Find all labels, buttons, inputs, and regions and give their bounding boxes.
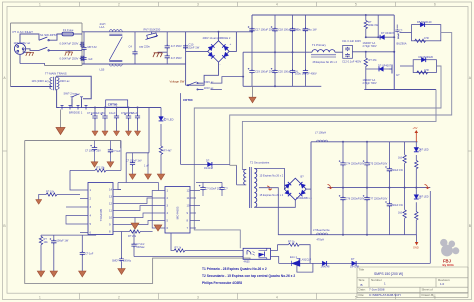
wire doubler throw B [211, 88, 222, 90]
clamp diode upper wire [366, 36, 394, 38]
filter cap column 1 [91, 108, 98, 136]
clamp diode lower [379, 67, 383, 72]
wire rail corner to HV rail [236, 15, 252, 32]
svg-text:P? U AC INLET: P? U AC INLET [13, 30, 34, 34]
svg-text:470uH: 470uH [317, 237, 325, 241]
choke L1B [109, 64, 122, 66]
series caps box C11 C12 [343, 45, 353, 58]
svg-text:820uF 1W: 820uF 1W [392, 204, 404, 207]
MOSFET T1 [389, 52, 394, 90]
opto LED [247, 251, 255, 256]
wire mesh 2 [121, 198, 157, 204]
svg-text:5: 5 [355, 3, 357, 7]
T2 primary lower tap wire [237, 165, 247, 185]
svg-text:T2 Secundaries: T2 Secundaries [250, 161, 270, 165]
svg-text:6: 6 [434, 3, 436, 7]
bridge 3 diamond [284, 178, 306, 200]
filter cap column 5 [134, 108, 140, 136]
wire mesh 1 [121, 191, 157, 197]
R left of ic top [95, 169, 106, 172]
red hook mid right [425, 185, 430, 189]
date/file values [369, 288, 401, 297]
main transformer primary coil [50, 77, 52, 89]
bulk cap C top4 [303, 15, 308, 52]
svg-text:7-Jun-2008: 7-Jun-2008 [369, 288, 385, 292]
svg-text:3: 3 [197, 3, 199, 7]
ground column3 [79, 271, 86, 277]
chassis ground 2 [65, 52, 73, 56]
gate drive diode wire [181, 163, 230, 165]
snubber2 diode [421, 57, 425, 62]
svg-text:10: 10 [109, 216, 113, 220]
inductor top rail [317, 140, 328, 142]
Y cap lower [165, 55, 170, 65]
svg-text:CRT80: CRT80 [183, 98, 193, 102]
filter cap column 3 [113, 108, 119, 136]
capacitor C3 on box edge [80, 56, 85, 61]
snubber2 resistor [417, 71, 428, 74]
out top rail [311, 141, 418, 143]
X cap column x84 lower [81, 56, 86, 64]
svg-text:Date:: Date: [359, 288, 366, 292]
TL431 [292, 259, 301, 267]
svg-text:2: 2 [118, 3, 120, 7]
svg-text:R? 10k: R? 10k [97, 166, 106, 170]
out res column4 [403, 142, 406, 235]
vcc cap1 ground [91, 162, 98, 167]
bulk cap C19 [248, 52, 255, 86]
svg-text:MUR420B x 4: MUR420B x 4 [296, 196, 312, 200]
optocoupler U box [243, 248, 270, 259]
wire secondary top to trap switch [57, 76, 92, 99]
svg-text:TDA4605: TDA4605 [99, 208, 103, 221]
red hook T2 [267, 186, 272, 190]
T2 core [249, 167, 251, 208]
R 22k row [121, 230, 153, 233]
left vertical doubler tap [242, 52, 244, 86]
svg-text:BRIDGE 2: BRIDGE 2 [218, 36, 231, 40]
ground arrow below bridge1 [60, 110, 62, 128]
feedback wire up right [429, 191, 431, 263]
wire R fb row [277, 243, 310, 263]
svg-text:SMD? 1n 100Vdc: SMD? 1n 100Vdc [112, 259, 132, 262]
switch SW2 trap contacts [71, 94, 84, 99]
chassis ground Y caps [153, 53, 162, 57]
ground arrow mesh 2 stub [157, 224, 159, 226]
fb diode 2 [352, 261, 356, 266]
svg-text:C?6 2200uF/16V: C?6 2200uF/16V [346, 198, 365, 201]
junction dots rail [94, 107, 139, 109]
wire switch A to fuse [49, 34, 62, 40]
zone letters [3, 76, 471, 228]
svg-text:cap 220n: cap 220n [139, 44, 150, 48]
bottom rail [82, 63, 186, 65]
gate drive diode [208, 162, 212, 167]
svg-text:C11 0.1uF 400V: C11 0.1uF 400V [342, 39, 361, 43]
svg-text:R? 1k: R? 1k [175, 245, 182, 249]
out res column3 top [385, 142, 392, 235]
chassis ground inlet [26, 52, 34, 56]
svg-text:12: 12 [187, 189, 191, 193]
opto transistor [259, 248, 267, 259]
wire doubler throw A [211, 77, 244, 84]
svg-text:0.0047uF 250V: 0.0047uF 250V [60, 42, 79, 46]
out left column [310, 142, 312, 235]
svg-text:400V 1A amp: 400V 1A amp [203, 36, 219, 40]
hot side enclosure wire top [25, 141, 121, 149]
svg-text:D5 MUR120: D5 MUR120 [417, 20, 432, 24]
title block texts [359, 267, 450, 296]
svg-text:BRIDGE 1: BRIDGE 1 [69, 111, 83, 115]
svg-text:1: 1 [39, 295, 41, 299]
LED D indicator [159, 117, 166, 121]
wire box2 to feedback P1 [194, 66, 441, 248]
ground arrow mesh 1 stub [134, 218, 136, 224]
ground column2 [50, 271, 57, 277]
svg-text:3: 3 [197, 295, 199, 299]
secondary top wire to bridge [254, 168, 284, 189]
svg-text:F1 Fuse: F1 Fuse [63, 28, 74, 32]
svg-text:D? LED: D? LED [165, 118, 174, 122]
wire caps to drain node [352, 51, 394, 53]
choke L1A [109, 30, 122, 32]
svg-text:-: - [220, 63, 221, 67]
wire ic top bus [118, 182, 159, 184]
zone tick right [468, 150, 472, 152]
svg-text:B: B [361, 283, 363, 287]
vcc cap2 column [108, 141, 113, 162]
svg-text:C?7 2200uF/16V: C?7 2200uF/16V [369, 198, 388, 201]
svg-text:4.7uF 400V: 4.7uF 400V [303, 71, 317, 75]
wire ic1 pin4 left [66, 216, 80, 225]
svg-text:.1uF: .1uF [88, 57, 94, 61]
Y cap upper [165, 32, 170, 56]
doubler switch blade [187, 82, 203, 90]
svg-text:11: 11 [187, 196, 190, 200]
bulk cap C18 [271, 15, 278, 52]
feedback wire main [279, 262, 431, 264]
svg-text:0.1uF: 0.1uF [131, 111, 138, 115]
svg-text:C? 100nF 1kV: C? 100nF 1kV [126, 160, 142, 163]
svg-text:GND: GND [413, 246, 419, 250]
svg-text:D? UF4007: D? UF4007 [381, 31, 395, 35]
wire mesh 6 [152, 197, 157, 229]
CRT80 pin stubs [111, 106, 119, 108]
svg-text:MC44603: MC44603 [176, 206, 180, 219]
zone ticks top [80, 2, 396, 7]
svg-text:Number: Number [371, 278, 382, 282]
vcc cap1 column [90, 141, 97, 162]
IC2 left pin stubs [157, 191, 165, 229]
wire secondary bottom down [57, 89, 59, 107]
svg-text:D?: D? [351, 257, 355, 261]
IC1 left pin stubs [80, 190, 88, 233]
svg-text:14: 14 [109, 188, 113, 192]
svg-text:C:\SMPS-AT-DAB.SCH: C:\SMPS-AT-DAB.SCH [369, 293, 401, 297]
svg-text:0.1uF: 0.1uF [109, 111, 116, 115]
svg-text:47R: 47R [424, 36, 429, 40]
svg-text:D? UF4007: D? UF4007 [378, 63, 392, 67]
svg-text:R? 47k: R? 47k [369, 58, 378, 62]
switch S1 pole B [39, 47, 49, 51]
title block frame [357, 267, 468, 298]
choke L1B core [109, 60, 122, 61]
svg-text:C?4 2200uF/16V: C?4 2200uF/16V [346, 163, 365, 166]
svg-text:1: 1 [39, 3, 41, 7]
bulk cap C17 [248, 15, 255, 52]
svg-text:MKT-X2: MKT-X2 [88, 45, 98, 49]
wire filter to bridge2 left [186, 50, 208, 52]
primary ground arrow [252, 86, 254, 97]
capacitor C2 on box edge [80, 42, 85, 47]
svg-text:T1 Primario - 28 Espiras Quadr: T1 Primario - 28 Espiras Quadru No.26 x … [202, 267, 267, 271]
mid drop ground [145, 174, 152, 179]
fuse F1 [62, 32, 74, 36]
filter cap column 2 [101, 108, 108, 136]
secondary ground port stub [416, 235, 418, 242]
right filter vertical [185, 32, 187, 85]
svg-text:C? 1nF: C? 1nF [85, 251, 94, 255]
svg-text:D6 MUR120: D6 MUR120 [419, 55, 434, 59]
svg-text:13: 13 [109, 195, 113, 199]
wire R pin2 [57, 194, 80, 196]
IC2 right pin numbers [187, 189, 191, 231]
wire inlet to switch top [20, 34, 39, 43]
svg-text:4: 4 [276, 295, 278, 299]
svg-text:1N4148: 1N4148 [321, 265, 331, 269]
C4 column [132, 32, 137, 64]
wire caps down [203, 191, 222, 196]
wire mesh 4 [121, 213, 157, 218]
bridge 3 diode top-right [299, 182, 306, 189]
IC1 right pin stubs [113, 190, 121, 232]
zone numbers top [39, 3, 436, 7]
wire R pin2 left down [39, 195, 46, 200]
R bottom left column [39, 235, 42, 271]
hot side enclosure wire left-bottom [25, 141, 250, 284]
snubber1 resistor [415, 39, 426, 42]
snubber box 2 [413, 60, 436, 73]
svg-text:C?5 2200uF/16V: C?5 2200uF/16V [369, 163, 388, 166]
wire primary left [51, 86, 54, 88]
cap bottom column3 [80, 235, 85, 271]
wire R to ground [160, 154, 162, 174]
cap C11 [345, 47, 350, 51]
wire aux to box1 [400, 32, 412, 34]
IC2 body [165, 187, 190, 234]
svg-text:630Vac: 630Vac [137, 246, 146, 249]
svg-text:4N35: 4N35 [244, 259, 251, 263]
clamp diode lower wire [366, 68, 389, 70]
sub rail to ic bus [125, 153, 127, 183]
bridge 3 diode bottom-left [285, 190, 292, 197]
aux winding element [395, 25, 399, 39]
ground arrow mesh 1 [131, 223, 139, 229]
clamp R lower [364, 58, 367, 66]
svg-text:L? 100uH: L? 100uH [315, 131, 326, 135]
svg-text:BUZ90A: BUZ90A [397, 41, 407, 45]
out cap column1 top [339, 142, 346, 235]
filter cap column 4 [124, 108, 131, 136]
size/number/revision values [361, 282, 445, 287]
snubber1 diode [420, 22, 424, 27]
wire trap to bridge1 right [81, 99, 83, 108]
wire to opto lower pin [134, 256, 243, 258]
X cap column x84 upper [81, 32, 86, 57]
T2 secondary winding upper [254, 168, 257, 187]
svg-text:1 uF: 1 uF [144, 164, 149, 167]
bridge 2 diode bottom-right [222, 52, 229, 59]
svg-text:L? Bead ferrite: L? Bead ferrite [313, 228, 330, 232]
ecap bottom column2 [50, 235, 57, 271]
wire opto top right [271, 245, 278, 251]
choke coupling diagonal [109, 37, 122, 61]
svg-text:SMPS 150 [200 W]: SMPS 150 [200 W] [374, 272, 403, 276]
ecap right of ic2 [199, 185, 206, 191]
+5V power port [415, 130, 419, 142]
svg-text:230V ac: 230V ac [60, 79, 71, 83]
svg-text:10: 10 [187, 204, 191, 208]
connector CRT80 [106, 100, 128, 107]
bulk cap C low3 [290, 52, 295, 86]
bridge 2 diode top-right [222, 44, 229, 51]
cap C12 [345, 53, 350, 57]
junction dots grid [342, 141, 417, 236]
svg-text:4n7 250V: 4n7 250V [171, 56, 182, 60]
mid plain drop [147, 153, 149, 174]
wire rail to coil [309, 51, 312, 53]
wire ic2 top bus [196, 182, 222, 187]
svg-text:Philips Ferroxcube 4C6E8: Philips Ferroxcube 4C6E8 [202, 281, 242, 285]
svg-text:4mH: 4mH [100, 22, 106, 26]
svg-text:R? 1k: R? 1k [288, 240, 295, 244]
svg-text:Erro 1: Erro 1 [290, 255, 298, 259]
vcc drop wire [120, 141, 122, 171]
svg-text:400k 1W: 400k 1W [368, 23, 379, 27]
ground smd cap [118, 269, 125, 275]
wire coil to series caps [335, 51, 343, 53]
svg-text:T? MAIN TRANS: T? MAIN TRANS [45, 72, 67, 76]
svg-text:L1B: L1B [100, 68, 105, 72]
svg-text:T2 Secundario - 15 Espiras con: T2 Secundario - 15 Espiras con tap centr… [202, 274, 295, 278]
svg-text:4ku 1W: 4ku 1W [308, 28, 317, 32]
svg-text:4: 4 [276, 3, 278, 7]
vdd sub rail [126, 152, 149, 154]
wire mesh 3 [121, 206, 157, 211]
svg-text:1N4148: 1N4148 [350, 265, 360, 269]
main transformer secondary coil [57, 77, 59, 89]
wire R to ic [70, 169, 121, 171]
bridge 2 diamond [208, 41, 230, 62]
svg-text:28 Espiras No 26 x 2: 28 Espiras No 26 x 2 [313, 60, 338, 64]
svg-text:D?: D? [206, 159, 210, 163]
out led column bottom [414, 188, 421, 235]
svg-text:+5V: +5V [413, 126, 418, 130]
svg-text:Voltage SW: Voltage SW [170, 80, 185, 84]
bridge3 right wire [306, 188, 311, 190]
wire mains box bottom [45, 65, 82, 67]
IC1 right pin numbers [109, 188, 113, 234]
wire mosfet to box2 [400, 65, 413, 67]
varistor RV1 [146, 32, 159, 40]
svg-text:1k5: 1k5 [398, 212, 403, 215]
bridge 3 diode bottom-right [299, 190, 306, 197]
R 1k to opto [171, 233, 243, 252]
svg-text:C? 100uF 25V: C? 100uF 25V [85, 149, 101, 152]
IC1 body [88, 183, 113, 235]
svg-text:1k5: 1k5 [398, 157, 403, 160]
FBJ logo circles [440, 239, 459, 256]
svg-text:TL431CLP: TL431CLP [299, 258, 311, 262]
svg-text:10k: 10k [44, 240, 49, 244]
svg-text:+: + [230, 42, 232, 46]
svg-text:11: 11 [109, 209, 112, 213]
wire ic top drop right [158, 183, 160, 191]
wire trap to bridge1 left [71, 99, 73, 108]
svg-text:115v 230v ac: 115v 230v ac [14, 41, 31, 45]
bottom rail [243, 85, 321, 87]
TL431 ref loop [297, 263, 313, 272]
wire left vertical to pin [70, 170, 80, 190]
wire P2 end to primary [230, 164, 237, 166]
vcc cap2 ground [107, 162, 114, 167]
wire bridge2 top to rail [218, 32, 220, 41]
svg-text:C? 1uF: C? 1uF [113, 150, 122, 153]
bridge 2 diode top-left [208, 44, 215, 51]
fb diode 1 [322, 261, 326, 266]
svg-text:C? 1000uF 25V: C? 1000uF 25V [87, 111, 105, 115]
T2 primary top wire [242, 169, 246, 171]
svg-text:RV? S10K250: RV? S10K250 [144, 27, 161, 31]
out led column top [414, 142, 421, 188]
center tap wire [259, 188, 311, 235]
wire mid pole to chassis ground 2 [68, 50, 70, 52]
switch S1 pole A [39, 37, 49, 41]
svg-text:R? 10k: R? 10k [46, 190, 55, 194]
zone numbers bottom [39, 295, 436, 299]
zone ticks bottom [80, 293, 396, 299]
mid cap ground [129, 174, 136, 179]
wire Y cap midpoint to chassis ground [158, 51, 167, 54]
source return wire [364, 89, 436, 91]
T1 primary core [311, 55, 336, 57]
wire bridge2 right to bulk rail [229, 32, 236, 52]
ground R bottom left [37, 271, 44, 277]
mid rail [243, 51, 309, 53]
out bottom rail [311, 234, 417, 236]
secondary ground port arrow [415, 242, 419, 245]
svg-text:2: 2 [118, 295, 120, 299]
svg-text:22nF 1W: 22nF 1W [189, 45, 200, 49]
IC2 right pin stubs [190, 191, 196, 229]
bulk cap C20 [271, 52, 278, 86]
wire inlet to switch bottom [20, 49, 39, 64]
low voltage rail [90, 107, 162, 109]
svg-text:4n7 250V: 4n7 250V [171, 44, 182, 48]
T2 secondary winding lower [254, 188, 257, 208]
resistor below LED [159, 146, 162, 154]
connector P1 AC inlet [14, 43, 25, 54]
svg-text:115 (230V ac): 115 (230V ac) [32, 79, 49, 83]
svg-text:15 Espiras No.26 x 2: 15 Espiras No.26 x 2 [260, 193, 284, 197]
mid cap column [130, 153, 135, 174]
wire switch B right [49, 49, 82, 51]
wire inlet pin to chassis ground [23, 50, 30, 53]
drain vertical [393, 15, 395, 52]
IC1 left pin numbers [90, 188, 92, 235]
wire bottom rail ics [41, 234, 96, 237]
out mid rail [328, 187, 431, 189]
